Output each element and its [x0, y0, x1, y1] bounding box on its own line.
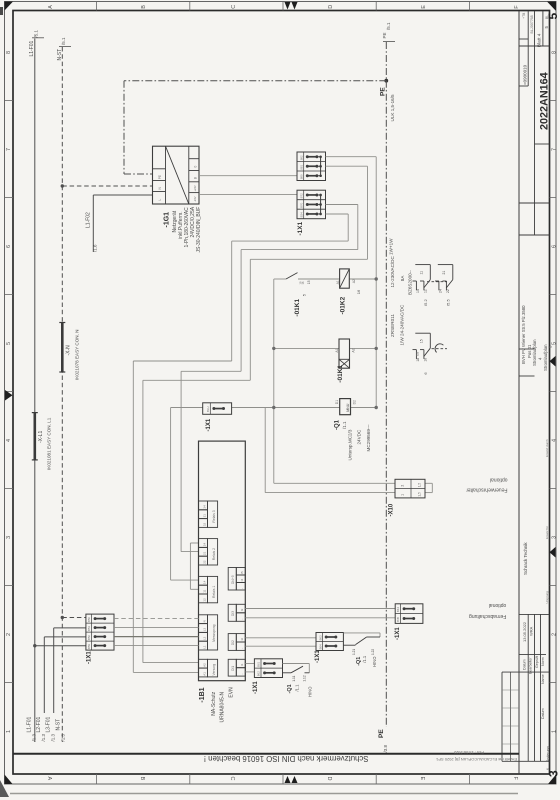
svg-text:882: 882 [299, 155, 303, 160]
svg-text:L3-F01: L3-F01 [46, 716, 52, 732]
svg-text:Bearbeiter: Bearbeiter [529, 657, 533, 674]
svg-text:N-ST: N-ST [57, 49, 63, 61]
B1 pins DI1 [228, 659, 236, 676]
svg-text:B61: B61 [257, 661, 261, 666]
svg-text:-1X1: -1X1 [206, 418, 212, 431]
fold mark corner bottom-left [5, 775, 13, 785]
wire PE vertical main [385, 81, 387, 727]
svg-text:L1: L1 [202, 645, 206, 649]
svg-text:8A: 8A [400, 275, 405, 282]
svg-text:1.11: 1.11 [292, 675, 296, 681]
fold mark right edge lower [550, 547, 556, 558]
svg-text:Relais 3: Relais 3 [212, 510, 216, 522]
svg-text:Plot : 13.06.2022: Plot : 13.06.2022 [453, 750, 484, 755]
load-break contact pair 11-14-12 [415, 264, 430, 266]
svg-text:+24V: +24V [193, 185, 197, 191]
svg-text:Datum: Datum [522, 659, 526, 670]
svg-text:1.21: 1.21 [352, 649, 356, 655]
frame strip dividers [5, 100, 14, 102]
terminal block X1 group 880-882 [297, 152, 326, 181]
svg-text:15: 15 [419, 339, 423, 343]
svg-text:PE: PE [158, 175, 162, 179]
svg-text:24VDC: 24VDC [356, 429, 361, 444]
svg-text:B53: B53 [87, 626, 91, 631]
undervoltage trip unit Q1 MNU [340, 399, 351, 415]
fold marks bottom centre [285, 776, 291, 783]
wire N branch to terminal [62, 617, 86, 619]
svg-text:I5: I5 [240, 571, 244, 574]
svg-text:-1B1: -1B1 [199, 687, 206, 702]
svg-text:/1.3: /1.3 [41, 733, 46, 741]
title block lines middle section [519, 348, 535, 350]
wire relay jumper 24-11 [189, 543, 191, 589]
svg-text:6: 6 [6, 245, 12, 248]
svg-text:Relais 2: Relais 2 [212, 548, 216, 560]
svg-text:16: 16 [424, 358, 428, 362]
svg-text:7: 7 [551, 148, 557, 151]
fold mark left edge [5, 390, 13, 401]
svg-text:Ersetzt durch: Ersetzt durch [545, 439, 549, 457]
svg-text:MC299569---: MC299569--- [366, 424, 371, 452]
svg-text:-1X1: -1X1 [315, 650, 321, 663]
svg-text:A: A [48, 5, 54, 9]
svg-text:ULK 1,5-16/5: ULK 1,5-16/5 [390, 94, 395, 122]
svg-text:/1.1: /1.1 [294, 684, 299, 692]
svg-text:D2: D2 [353, 400, 357, 404]
B1 pins DI2 [228, 634, 236, 651]
svg-text:-01K1: -01K1 [294, 299, 301, 317]
wire left rail [273, 279, 275, 483]
svg-text:DI2: DI2 [231, 640, 235, 645]
protection notice banner line [13, 753, 519, 755]
svg-text:8: 8 [551, 51, 557, 54]
svg-text:Schrack Technik: Schrack Technik [523, 542, 528, 575]
wire BLU drop to relay1 pin14 [170, 408, 172, 581]
svg-text:Ursprung: Ursprung [545, 591, 549, 604]
B1 pins relais2 [199, 539, 208, 548]
svg-text:Geprüft: Geprüft [535, 656, 539, 668]
scan artifact bottom edge line [10, 793, 518, 795]
fold mark right edge upper [550, 356, 556, 367]
svg-text:+TB: +TB [522, 13, 526, 19]
svg-text:L1-F01: L1-F01 [27, 716, 33, 732]
svg-text:-1X1: -1X1 [395, 627, 401, 640]
wire 882 supply rail right [326, 156, 377, 158]
svg-text:Änderung: Änderung [546, 746, 550, 762]
wire top rail [274, 278, 286, 280]
svg-text:11: 11 [202, 589, 206, 592]
svg-text:Messspnng: Messspnng [212, 624, 216, 641]
svg-text:A2: A2 [352, 279, 356, 283]
svg-text:BZ6S2000--: BZ6S2000-- [407, 270, 412, 295]
svg-text:Norm: Norm [541, 657, 545, 666]
svg-text:=0900910: =0900910 [523, 64, 528, 85]
svg-text:2: 2 [400, 485, 404, 487]
svg-text:ZRSER011: ZRSER011 [390, 314, 395, 337]
relay coil K2 [340, 269, 350, 288]
svg-text:NA-Schutz: NA-Schutz [211, 691, 217, 715]
svg-text:L1-F02: L1-F02 [86, 212, 92, 228]
svg-text:MNU: MNU [346, 403, 350, 412]
svg-text:B50: B50 [87, 617, 91, 622]
svg-text:1W+1W: 1W+1W [388, 238, 393, 255]
svg-text:B: B [139, 777, 145, 781]
B1 pins DI3 [228, 604, 236, 621]
title block name/date table [501, 672, 503, 761]
node MNU rail left [272, 406, 275, 409]
svg-text:-Q1: -Q1 [335, 419, 341, 430]
svg-text:Schutzvermerk nach DIN ISO 160: Schutzvermerk nach DIN ISO 16016 beachte… [204, 754, 369, 763]
svg-text:E: E [421, 5, 427, 9]
wire middle rail [274, 347, 339, 349]
wire PE stub top [385, 42, 387, 81]
svg-text:URNA8045-N: URNA8045-N [220, 692, 226, 723]
svg-text:I2: I2 [240, 638, 244, 641]
svg-text:12: 12 [424, 289, 428, 293]
svg-text:14: 14 [416, 289, 420, 293]
svg-text:3: 3 [6, 536, 12, 539]
mechanical link dashed [427, 281, 447, 283]
svg-text:24: 24 [439, 289, 443, 293]
svg-text:0: 0 [193, 166, 197, 168]
svg-text:B63: B63 [318, 635, 322, 640]
svg-text:A2: A2 [352, 348, 356, 352]
svg-text:IK021078 EASY CON. N: IK021078 EASY CON. N [74, 330, 79, 380]
svg-text:24: 24 [202, 543, 206, 547]
svg-text:5: 5 [551, 342, 557, 345]
svg-text:12-230VAC/DC: 12-230VAC/DC [390, 255, 395, 287]
svg-text:3: 3 [551, 536, 557, 539]
terminal X1 BLU [203, 403, 232, 415]
terminal block X1 group B34-B72 [297, 190, 326, 219]
svg-text:C: C [231, 5, 237, 9]
svg-text:/1.1: /1.1 [342, 421, 347, 429]
svg-text:B44: B44 [396, 607, 400, 612]
svg-text:/5.1: /5.1 [386, 22, 391, 30]
svg-text:IK021081 EASY CON. L1: IK021081 EASY CON. L1 [47, 417, 52, 470]
wire N branch to PSU [62, 185, 152, 187]
svg-text:Name: Name [541, 674, 545, 684]
svg-text:Fernabschaltung: Fernabschaltung [469, 613, 506, 619]
svg-text:1,5: 1,5 [417, 492, 421, 497]
svg-text:L: L [158, 199, 162, 201]
svg-text:-1X1: -1X1 [253, 681, 259, 694]
svg-text:Ersatz für: Ersatz für [545, 526, 549, 539]
svg-text:8: 8 [6, 51, 12, 54]
svg-text:-X-N: -X-N [66, 345, 72, 356]
svg-text:A1: A1 [202, 672, 206, 676]
svg-text:DI3: DI3 [231, 611, 235, 616]
svg-text:-1X1: -1X1 [86, 651, 92, 664]
svg-text:PE: PE [380, 87, 387, 96]
wire B34 drop W1 [326, 213, 349, 215]
wire L1 branch to terminal [35, 645, 86, 647]
node middle rail right [375, 347, 378, 350]
svg-text:15: 15 [307, 280, 311, 284]
wire G1 out B [199, 175, 297, 177]
wire L2-F01 [43, 637, 45, 713]
svg-text:1,5: 1,5 [417, 483, 421, 488]
svg-text:-: - [240, 588, 244, 589]
svg-text:/3.8: /3.8 [383, 744, 388, 752]
NA-protection device B1 [199, 441, 246, 681]
node N bottom branch [61, 616, 64, 619]
terminal pair X1 B44 B45 [395, 604, 423, 624]
svg-text:2: 2 [551, 633, 557, 636]
scan artifact left edge [0, 7, 3, 15]
wire PE down left side [123, 81, 125, 174]
svg-text:B72: B72 [299, 193, 303, 198]
svg-text:/5.2: /5.2 [423, 299, 428, 306]
svg-text:/1.3: /1.3 [51, 733, 56, 741]
svg-text:PE: PE [382, 32, 387, 38]
svg-text:31: 31 [202, 514, 206, 518]
scan artifact bottom-left blob [0, 780, 9, 797]
svg-text:13.05.2022: 13.05.2022 [522, 621, 527, 642]
wire L1-F01 main line [34, 39, 36, 743]
load-break contact pair 21-24-22 [438, 264, 453, 266]
svg-text:Pos 01: Pos 01 [527, 344, 532, 358]
svg-text:881: 881 [299, 165, 303, 170]
svg-text:3: 3 [547, 770, 560, 777]
terminal block X1 B50-B59 [86, 614, 114, 650]
svg-text:4: 4 [551, 439, 557, 442]
svg-text:/5.5: /5.5 [445, 299, 450, 306]
svg-text:B: B [141, 5, 147, 9]
svg-text:WRA: WRA [529, 626, 534, 636]
svg-text:22: 22 [202, 560, 206, 564]
svg-text:L1-F01: L1-F01 [29, 40, 35, 56]
relay coil K1 latching [339, 339, 350, 368]
svg-text:B45: B45 [396, 616, 400, 621]
wires X1 to B1 measurement [114, 618, 199, 620]
svg-text:-1G1: -1G1 [164, 212, 171, 228]
svg-text:/1.6: /1.6 [93, 244, 98, 252]
B1 pins relais3 [199, 501, 208, 510]
svg-text:34: 34 [202, 505, 206, 509]
svg-text:BVH PV Wiener Str.5 Plz.3580: BVH PV Wiener Str.5 Plz.3580 [521, 305, 526, 364]
svg-text:880: 880 [299, 174, 303, 179]
terminal pair X1 B63 B64 [316, 633, 343, 651]
svg-text:A2: A2 [202, 663, 206, 667]
svg-text:EB: EB [415, 352, 419, 356]
svg-text:/5.1: /5.1 [34, 29, 39, 37]
svg-text:Datum: Datum [541, 708, 545, 719]
svg-text:Feuerwehrschalter: Feuerwehrschalter [466, 486, 508, 492]
contact K1 NO in top rail [286, 273, 298, 279]
B1 pins supply [199, 659, 208, 668]
svg-text:-01K1: -01K1 [337, 365, 344, 383]
svg-text:21: 21 [202, 551, 206, 555]
svg-text:EVN: EVN [229, 687, 235, 698]
svg-text:18: 18 [416, 358, 420, 362]
fold mark corner top-right [547, 2, 556, 12]
svg-text:B: B [193, 177, 197, 179]
cable marker -X-N [61, 323, 64, 373]
svg-text:A1: A1 [336, 280, 340, 284]
svg-text:2: 2 [6, 633, 12, 636]
wires DI3 to remote terminals [245, 608, 395, 610]
svg-text:4: 4 [6, 439, 12, 442]
svg-text:-Q1: -Q1 [287, 684, 293, 693]
svg-text:12: 12 [202, 598, 206, 602]
svg-text:D1: D1 [335, 400, 339, 404]
wire X10 jumper loop [425, 482, 432, 484]
svg-text:optional: optional [490, 477, 508, 483]
svg-text:14: 14 [202, 580, 206, 584]
svg-text:B56: B56 [87, 635, 91, 640]
wire L3-F01 [53, 628, 55, 713]
svg-text:Stromlaufplan: Stromlaufplan [532, 339, 537, 366]
power supply G1 [153, 146, 200, 204]
svg-text:7: 7 [6, 148, 12, 151]
svg-text:BLU: BLU [206, 406, 210, 411]
svg-text:16: 16 [356, 289, 361, 294]
node middle rail left [272, 347, 275, 350]
node L1 bottom branch [33, 644, 36, 647]
title block column line main [518, 11, 520, 774]
svg-text:1: 1 [400, 494, 404, 496]
svg-text:C: C [229, 777, 235, 781]
svg-text:N: N [202, 620, 206, 622]
svg-text:Versorg: Versorg [212, 664, 216, 676]
svg-text:Relais 1: Relais 1 [212, 586, 216, 598]
B1 pins measurement [199, 615, 208, 624]
fold mark corner top-left [5, 2, 14, 11]
wire PE into PSU [124, 173, 153, 175]
svg-text:-: - [240, 619, 244, 620]
svg-text:-: - [240, 648, 244, 649]
svg-text:A1: A1 [335, 348, 339, 352]
svg-text:HINO: HINO [372, 656, 377, 667]
svg-text:1/W 24-240VAC/DC: 1/W 24-240VAC/DC [400, 304, 405, 345]
svg-text:D: D [326, 777, 332, 781]
breaker aux contact Q1 1.21/1.22 [343, 632, 380, 634]
svg-text:1.22: 1.22 [371, 649, 375, 655]
svg-text:DI1: DI1 [231, 666, 235, 671]
svg-text:11: 11 [419, 271, 423, 275]
wires DI1 to terminals [245, 663, 254, 665]
svg-text:22: 22 [446, 289, 450, 293]
svg-text:A: A [46, 777, 52, 781]
svg-text:optional: optional [489, 602, 507, 608]
svg-text:-X10: -X10 [389, 503, 395, 516]
wire MNU rail [232, 407, 340, 409]
svg-text:B62: B62 [257, 671, 261, 676]
svg-text:/1.3: /1.3 [32, 733, 37, 741]
wire N-ST main line [61, 47, 63, 742]
wire L1-F02 stub [93, 194, 152, 196]
B1 pins DI4+5 [228, 568, 236, 591]
svg-text:JS-30-240/DIN_BUF: JS-30-240/DIN_BUF [196, 207, 202, 253]
svg-text:B64: B64 [318, 644, 322, 649]
wire G1 out 24V [199, 194, 297, 196]
svg-text:N-ST: N-ST [55, 719, 61, 731]
svg-text:B59: B59 [87, 644, 91, 649]
actuation dashed with pull symbol [432, 348, 448, 350]
svg-text:32: 32 [202, 523, 206, 527]
fire-switch contact ZRSER [415, 332, 430, 334]
node PE corner [384, 79, 388, 83]
fold marks top centre [285, 2, 291, 10]
fold mark corner bottom-right [548, 775, 556, 785]
svg-text:HINO: HINO [307, 686, 312, 697]
node rail top right [375, 277, 378, 280]
wire PE horizontal to enclosure [124, 80, 386, 82]
svg-text:L2: L2 [202, 636, 206, 640]
node N to PSU [61, 184, 64, 187]
svg-text:1: 1 [6, 730, 12, 733]
svg-text:-1X1: -1X1 [297, 221, 304, 235]
svg-text:DI4+5: DI4+5 [231, 575, 235, 584]
svg-text:-: - [240, 674, 244, 675]
wire X10 lower feed [264, 408, 266, 493]
terminal pair X1 B61 B62 [254, 659, 282, 678]
svg-text:-01K2: -01K2 [340, 296, 347, 314]
svg-text:21: 21 [442, 271, 446, 275]
svg-text:2022AN164: 2022AN164 [539, 72, 551, 130]
svg-text:L3: L3 [202, 628, 206, 632]
fire switch terminal X10 [395, 479, 425, 498]
svg-text:B70: B70 [299, 202, 303, 207]
svg-text:5: 5 [6, 342, 12, 345]
wires DI2 to terminals [245, 637, 316, 639]
wire B70 drop W2 [326, 204, 358, 206]
svg-text:L2-F01: L2-F01 [36, 716, 42, 732]
cable marker -X-L1 [33, 413, 36, 460]
svg-text:K.: K. [546, 767, 550, 770]
svg-text:/5.1: /5.1 [61, 37, 66, 45]
svg-text:I3: I3 [240, 608, 244, 611]
B1 pins relais1 [199, 576, 208, 585]
wire 881 drop W3 [326, 165, 368, 167]
breaker aux contact Q1 1.11/1.12 [283, 663, 310, 665]
svg-text:-Q1: -Q1 [356, 657, 362, 666]
title block lines bottom section [519, 613, 550, 615]
svg-text:B34: B34 [299, 212, 303, 217]
svg-text:E: E [419, 777, 425, 781]
svg-text:/1.1: /1.1 [362, 655, 367, 663]
svg-text:D: D [328, 5, 334, 9]
svg-text:I4: I4 [240, 579, 244, 582]
svg-text:Untersp.MC2/3: Untersp.MC2/3 [348, 429, 353, 460]
node MNU rail right [375, 406, 378, 409]
svg-text:6: 6 [551, 245, 557, 248]
svg-text:-24V: -24V [193, 196, 197, 202]
svg-text:Bl.: Bl. [545, 15, 549, 19]
svg-text:/1.3: /1.3 [60, 733, 65, 741]
svg-text:BLJ007768: BLJ007768 [530, 15, 534, 33]
svg-text:Erstellt mit ELCAD/AUCOPLAN [B: Erstellt mit ELCAD/AUCOPLAN [B] 2020 SP1 [435, 757, 517, 762]
svg-text:-X-L1: -X-L1 [38, 431, 44, 443]
svg-text:I1: I1 [240, 663, 244, 666]
title block lines top section [527, 11, 529, 86]
svg-text:1.12: 1.12 [303, 675, 307, 681]
svg-text:1: 1 [551, 730, 557, 733]
svg-text:PE: PE [378, 729, 385, 738]
svg-text:Blatt 4: Blatt 4 [536, 33, 542, 47]
